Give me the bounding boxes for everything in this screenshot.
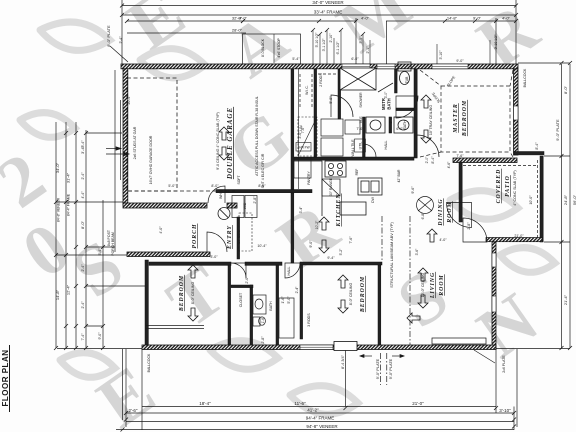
- svg-text:5'-4": 5'-4": [98, 248, 102, 256]
- bath2 vanity: [253, 295, 266, 314]
- svg-text:2'-4": 2'-4": [119, 36, 123, 44]
- svg-text:HALL: HALL: [384, 141, 388, 150]
- svg-text:6'-0": 6'-0": [351, 57, 359, 61]
- svg-text:3'-5": 3'-5": [359, 36, 363, 44]
- kitchen cooktop: [325, 161, 346, 177]
- bath2 tub: [279, 298, 294, 338]
- bedroom2 left wall: [145, 260, 148, 345]
- svg-text:10'-0": 10'-0": [529, 195, 533, 205]
- svg-text:9'-0": 9'-0": [473, 16, 482, 21]
- svg-text:2'-10": 2'-10": [329, 33, 333, 43]
- garage storage dashed rect: [127, 78, 177, 191]
- kitchen sink cabinet: [358, 178, 382, 195]
- svg-text:8'-0 BLOCK: 8'-0 BLOCK: [261, 38, 265, 57]
- toilet room wall: [395, 69, 398, 93]
- svg-text:6'-1 1/2": 6'-1 1/2": [336, 41, 340, 55]
- right extension at top wall: [518, 62, 570, 64]
- plate lines bottom: [381, 353, 387, 385]
- svg-text:KITCHEN: KITCHEN: [336, 193, 342, 227]
- svg-text:8'-0": 8'-0": [258, 184, 266, 188]
- svg-text:31'-4": 31'-4": [66, 172, 71, 183]
- bedroom doors: [231, 263, 246, 278]
- bath partition 2: [276, 265, 279, 345]
- svg-text:28'-0": 28'-0": [232, 28, 243, 33]
- bottom dim row 2: [126, 412, 514, 414]
- svg-text:34'-0": 34'-0": [55, 162, 60, 173]
- svg-text:4'-4": 4'-4": [81, 191, 85, 199]
- svg-text:BATH: BATH: [387, 98, 392, 109]
- utility north wall: [216, 190, 312, 193]
- top dim line veneer: [122, 5, 516, 7]
- svg-text:5'-0": 5'-0": [168, 184, 176, 188]
- utility closet box: [232, 196, 257, 218]
- svg-text:14'-8": 14'-8": [447, 16, 458, 21]
- svg-text:3'-1 1/2": 3'-1 1/2": [322, 38, 326, 52]
- svg-text:8'-4": 8'-4": [535, 142, 539, 150]
- left tick y303: [86, 325, 103, 327]
- svg-text:8'-0" PLATE: 8'-0" PLATE: [106, 25, 111, 47]
- svg-text:5'-2": 5'-2": [339, 248, 343, 256]
- svg-text:BEDROOM: BEDROOM: [179, 275, 185, 312]
- svg-text:7'-4": 7'-4": [81, 333, 85, 341]
- room label BEDROOM 2: [179, 275, 185, 312]
- master closet rods: [300, 74, 336, 108]
- master bedroom door arc: [417, 135, 439, 157]
- closet bath door arc: [331, 95, 353, 117]
- svg-text:ROOM: ROOM: [439, 274, 445, 296]
- left extension porch: [56, 254, 144, 256]
- hall door arc: [363, 144, 376, 157]
- svg-text:7'-6": 7'-6": [349, 236, 353, 244]
- svg-text:5'-0": 5'-0": [287, 296, 291, 304]
- patio left wall: [459, 162, 462, 222]
- bottom dim row 4: [116, 429, 514, 431]
- left tick y242: [86, 246, 115, 248]
- kitchen north wall: [294, 157, 414, 160]
- svg-text:BATH: BATH: [403, 120, 407, 130]
- svg-text:12'-4": 12'-4": [66, 284, 71, 295]
- svg-text:4'-0": 4'-0": [439, 238, 447, 242]
- svg-text:2'-0": 2'-0": [425, 156, 429, 164]
- right dim texts: [563, 85, 568, 94]
- left extension to garage wall: [56, 201, 123, 203]
- room label COVERED PATIO: [496, 169, 511, 204]
- svg-text:PATIO: PATIO: [505, 175, 511, 197]
- bedroom3 right wall: [378, 265, 381, 345]
- master toilet: [398, 62, 411, 85]
- svg-text:MASTER: MASTER: [453, 103, 459, 134]
- svg-text:2'-8": 2'-8": [253, 196, 257, 204]
- svg-text:CLOSET: CLOSET: [239, 292, 243, 307]
- svg-text:30" RANGE: 30" RANGE: [329, 177, 333, 196]
- svg-text:3'-4": 3'-4": [299, 206, 303, 214]
- svg-text:10'-2": 10'-2": [315, 220, 319, 229]
- leader 8-0 plate: [110, 46, 128, 62]
- svg-text:8'-0": 8'-0": [211, 184, 219, 188]
- svg-text:9'-0 CEILING 4" CONC SLAB (TYP: 9'-0 CEILING 4" CONC SLAB (TYP): [216, 112, 220, 170]
- slope notes: [446, 75, 456, 88]
- svg-text:2'-6": 2'-6": [129, 408, 138, 413]
- bath window 2: [377, 64, 395, 69]
- misc clutter texts: [237, 76, 451, 324]
- svg-text:SOFT: SOFT: [237, 175, 241, 184]
- garage door panel: [120, 100, 122, 180]
- left tick row: [86, 132, 122, 134]
- svg-text:4'-0": 4'-0": [502, 16, 511, 21]
- bottom dim row 1: [142, 406, 496, 408]
- svg-text:BALLCOCK: BALLCOCK: [523, 68, 527, 87]
- front door arc: [207, 232, 227, 252]
- bottom exterior wall: [142, 345, 496, 350]
- svg-text:W/D: W/D: [243, 202, 247, 209]
- plate arrows: [360, 355, 404, 358]
- svg-text:9'-0" PLATE: 9'-0" PLATE: [376, 358, 380, 379]
- top dim line frame: [122, 14, 516, 16]
- svg-text:BATH: BATH: [269, 301, 273, 311]
- master door arc: [396, 96, 418, 118]
- svg-text:2'-4": 2'-4": [81, 301, 85, 309]
- bath toilet wall: [396, 108, 414, 111]
- svg-text:2'-4": 2'-4": [295, 286, 299, 294]
- svg-text:34'-0" VENEER: 34'-0" VENEER: [312, 0, 344, 5]
- svg-text:BALLCOCK: BALLCOCK: [147, 353, 151, 372]
- right extension patio bottom: [544, 241, 570, 243]
- bath partition horizontal: [231, 285, 253, 288]
- svg-text:3 RODS: 3 RODS: [307, 313, 311, 327]
- bottom right ext x517: [516, 349, 518, 427]
- living window 1: [492, 253, 496, 267]
- bottom dim row 3: [126, 421, 514, 423]
- svg-text:9'-0" PLATE: 9'-0" PLATE: [555, 119, 560, 141]
- porch front wall: [127, 252, 210, 257]
- dining patio door arc: [447, 203, 472, 228]
- living window 2: [492, 296, 496, 312]
- wall jog mb to patio: [514, 152, 544, 155]
- svg-text:8'-0" CEILING: 8'-0" CEILING: [191, 282, 195, 305]
- master vanity 1: [366, 117, 385, 133]
- beam note: [390, 222, 394, 288]
- veneer face line left: [114, 70, 116, 252]
- master right wall: [514, 69, 519, 155]
- dim extension verticals above wall: [313, 30, 490, 64]
- extension vertical x356: [355, 18, 357, 64]
- svg-text:3'-4": 3'-4": [81, 140, 85, 148]
- util washer dryer: [321, 119, 360, 156]
- svg-text:11'-6": 11'-6": [294, 401, 306, 406]
- kitchen arrows: [319, 217, 329, 253]
- master bedroom west wall: [414, 69, 417, 158]
- top exterior wall: [121, 64, 518, 69]
- svg-text:4'-0": 4'-0": [159, 226, 163, 234]
- svg-text:33'-4" FRAME: 33'-4" FRAME: [314, 10, 342, 15]
- svg-text:1'-6": 1'-6": [261, 316, 265, 324]
- entry east wall: [237, 217, 240, 259]
- svg-text:2'-1": 2'-1": [366, 46, 370, 54]
- svg-text:W.I.C.: W.I.C.: [305, 85, 309, 95]
- svg-text:10'-4": 10'-4": [257, 244, 267, 248]
- svg-text:ENTRY: ENTRY: [227, 225, 233, 250]
- living bottom window: [432, 338, 486, 344]
- fireplace box: [334, 342, 357, 351]
- master window right: [514, 106, 519, 120]
- garage dashed ceiling line: [128, 190, 235, 192]
- garage ceiling arrows: [219, 127, 229, 160]
- bottom ext x122: [122, 349, 124, 420]
- svg-text:DW: DW: [371, 196, 375, 202]
- bottom ext x514: [513, 407, 515, 431]
- garage wall dim arrows: [106, 147, 129, 156]
- svg-text:BEDROOM: BEDROOM: [360, 276, 366, 313]
- dining table: [417, 197, 434, 214]
- living room ceiling arrows horizontal: [407, 313, 420, 323]
- garage right wall: [291, 69, 294, 193]
- svg-text:FLOOR PLAN: FLOOR PLAN: [1, 350, 10, 407]
- left dim line b: [65, 122, 67, 348]
- plate note texts bottom: [376, 358, 380, 379]
- svg-text:STRUCTURAL LAM BEAM ABV (TYP): STRUCTURAL LAM BEAM ABV (TYP): [390, 222, 394, 288]
- svg-text:1'-6": 1'-6": [281, 296, 285, 304]
- svg-text:BEDROOM: BEDROOM: [462, 100, 468, 137]
- svg-text:WH: WH: [219, 193, 223, 199]
- dim cluster above wall: [119, 32, 498, 105]
- svg-text:3'-0": 3'-0": [210, 255, 218, 259]
- kitchen west wall: [291, 193, 294, 263]
- svg-text:94'-4" FRAME: 94'-4" FRAME: [306, 416, 334, 421]
- svg-text:2'-8": 2'-8": [467, 222, 471, 230]
- svg-text:UTIL: UTIL: [359, 142, 363, 150]
- svg-text:3'-6": 3'-6": [415, 248, 419, 256]
- svg-text:9'-4": 9'-4": [327, 256, 335, 260]
- svg-text:21'-0": 21'-0": [412, 401, 424, 406]
- svg-text:18'-4": 18'-4": [199, 401, 211, 406]
- svg-text:8'-0": 8'-0": [80, 220, 85, 229]
- svg-text:PANTRY: PANTRY: [307, 171, 311, 185]
- svg-text:9'-0": 9'-0": [309, 240, 313, 248]
- svg-text:5'-10 1/2": 5'-10 1/2": [315, 32, 319, 48]
- svg-text:7'-6": 7'-6": [456, 154, 464, 158]
- svg-text:94'-8" VENEER: 94'-8" VENEER: [306, 424, 338, 429]
- garage interior dim line: [298, 69, 300, 189]
- left dim line e: [102, 200, 104, 348]
- svg-text:2x6 PLATE: 2x6 PLATE: [502, 355, 506, 373]
- left dim line c: [75, 122, 77, 348]
- svg-text:8'-0" CEILING: 8'-0" CEILING: [349, 283, 353, 306]
- svg-text:21'-4": 21'-4": [563, 294, 568, 305]
- svg-text:REF: REF: [355, 169, 359, 176]
- svg-text:MSTR: MSTR: [381, 98, 386, 110]
- bottom ext x142: [141, 349, 143, 430]
- patio right wall: [540, 156, 543, 242]
- svg-text:8'-4": 8'-4": [431, 156, 435, 164]
- master tray ceiling dashed: [420, 70, 513, 157]
- kitchen island: [340, 202, 366, 215]
- room label DINING ROOM: [438, 198, 453, 226]
- svg-text:DOUBLE GARAGE: DOUBLE GARAGE: [226, 107, 234, 180]
- svg-text:2'-4": 2'-4": [81, 264, 85, 272]
- room label PORCH: [192, 224, 198, 249]
- svg-text:20'-4": 20'-4": [127, 95, 131, 105]
- structural beam dashed: [382, 216, 410, 345]
- room label MSTR BATH: [381, 98, 392, 110]
- room label CLOSET: [239, 292, 243, 307]
- svg-text:2x6 STUDS AT GAR: 2x6 STUDS AT GAR: [133, 126, 137, 159]
- svg-text:24'-8": 24'-8": [563, 194, 568, 205]
- svg-text:5'-4": 5'-4": [292, 57, 300, 61]
- room label KITCHEN: [336, 193, 342, 227]
- right dim line a: [561, 64, 563, 348]
- svg-text:12'-0" CEILING: 12'-0" CEILING: [421, 273, 425, 298]
- svg-text:2 RODS: 2 RODS: [319, 73, 323, 87]
- svg-text:1HR FW: 1HR FW: [297, 146, 309, 150]
- svg-text:9'-0": 9'-0": [456, 59, 464, 63]
- title FLOOR PLAN: [1, 350, 10, 407]
- master arrows: [421, 95, 431, 143]
- svg-text:16'x7' OVHD GARAGE DOOR: 16'x7' OVHD GARAGE DOOR: [149, 135, 153, 184]
- master shower: [340, 68, 376, 90]
- svg-text:8'-0": 8'-0": [563, 85, 568, 94]
- top dim line segments: [127, 20, 356, 22]
- small interior dim texts scattered: [159, 57, 539, 344]
- toilet door leaf: [378, 83, 393, 92]
- hall closet wall: [300, 265, 303, 339]
- bottom extension right: [496, 348, 570, 350]
- bottom ext x496: [495, 349, 497, 413]
- garage attic note: [255, 96, 259, 176]
- left dim line d: [85, 130, 87, 348]
- svg-text:56'-0": 56'-0": [572, 194, 576, 205]
- living room right wall: [492, 242, 496, 349]
- garage bottom wall: [123, 203, 207, 208]
- water heater: [218, 208, 230, 220]
- svg-text:41'-2": 41'-2": [307, 408, 319, 413]
- bottom right leader: [474, 350, 495, 363]
- room label LIVING ROOM: [430, 272, 445, 299]
- room label BEDROOM 3: [360, 276, 366, 313]
- room label DOUBLE GARAGE: [226, 107, 234, 180]
- bottom ext x126: [125, 349, 127, 427]
- svg-text:TUB: TUB: [405, 76, 409, 84]
- svg-text:6'-0": 6'-0": [396, 127, 404, 131]
- svg-text:84'-4" FRAME: 84'-4" FRAME: [67, 193, 71, 216]
- svg-text:PORCH BEAM: PORCH BEAM: [111, 232, 115, 256]
- svg-text:ATTIC ACCESS PULL DOWN STAIR R: ATTIC ACCESS PULL DOWN STAIR R-38 INSUL: [255, 96, 259, 176]
- kitchen counter line: [294, 161, 322, 216]
- svg-text:2'-0": 2'-0": [245, 276, 249, 284]
- bedroom2 arrows: [188, 265, 198, 321]
- bath partition 1: [250, 285, 253, 345]
- entry north door arc: [208, 186, 225, 203]
- room label WIC: [305, 85, 309, 95]
- svg-text:84'-8" VENEER: 84'-8" VENEER: [57, 197, 61, 222]
- left dim labels: [57, 140, 116, 341]
- svg-text:PORCH: PORCH: [192, 224, 198, 249]
- bedroom2 window: [146, 326, 204, 329]
- svg-text:10' CEIL: 10' CEIL: [237, 230, 241, 244]
- hall south wall bedrooms top: [149, 262, 382, 265]
- svg-text:7'-6": 7'-6": [301, 126, 305, 134]
- patio bottom screen: [486, 238, 542, 242]
- svg-text:SHOWER: SHOWER: [359, 92, 363, 108]
- left dim line a: [55, 122, 57, 348]
- svg-text:3'-10 1/2": 3'-10 1/2": [494, 34, 498, 50]
- bath window 1: [342, 64, 370, 69]
- svg-text:4'-6": 4'-6": [447, 161, 451, 169]
- garage bottom wall right piece: [227, 203, 237, 208]
- svg-text:COVERED: COVERED: [496, 169, 502, 204]
- svg-text:DINING: DINING: [438, 198, 444, 226]
- bath2 toilet: [253, 317, 265, 326]
- dim line y33 left: [127, 32, 246, 34]
- left dim texts: [55, 162, 60, 173]
- right dim line b: [569, 64, 571, 348]
- room label ENTRY: [227, 225, 233, 250]
- room label MASTER BEDROOM: [453, 100, 468, 137]
- util wall: [363, 117, 366, 157]
- room label HALL2: [287, 267, 291, 276]
- svg-text:2'-8": 2'-8": [261, 336, 265, 344]
- bedroom2 right wall: [228, 265, 231, 345]
- master vanity 2: [394, 117, 413, 133]
- bath hall wall: [314, 69, 317, 157]
- svg-text:9'-0" PLATE: 9'-0" PLATE: [389, 358, 393, 379]
- svg-text:6'-8": 6'-8": [421, 212, 425, 220]
- bottom ext x230 fireplace centerline: [345, 350, 347, 407]
- svg-text:14'-8": 14'-8": [55, 289, 60, 300]
- svg-text:4'x6' STOOP: 4'x6' STOOP: [277, 38, 281, 58]
- svg-text:4'-0": 4'-0": [361, 16, 370, 21]
- svg-text:LIVING: LIVING: [430, 272, 436, 299]
- patio screen dashed: [537, 160, 539, 238]
- stoop centerline: [273, 34, 275, 63]
- bottom extension line full: [57, 348, 142, 350]
- patio door arc: [463, 218, 487, 242]
- pantry shelves: [298, 117, 317, 156]
- extension vertical x496: [495, 18, 497, 64]
- right extension at mb bottom: [544, 155, 570, 157]
- garage ceiling note: [216, 112, 220, 170]
- svg-text:9'-0": 9'-0": [98, 332, 102, 340]
- kitchen fridge: [322, 179, 340, 196]
- patio top wall: [453, 158, 517, 163]
- svg-text:8'-4 3/4": 8'-4 3/4": [341, 354, 345, 369]
- master top wall window: [432, 64, 468, 69]
- room label UTIL: [355, 139, 366, 152]
- svg-text:2'-8": 2'-8": [389, 116, 393, 124]
- left tick y262: [86, 285, 145, 287]
- svg-text:4" CONC SLAB (TYP): 4" CONC SLAB (TYP): [513, 170, 517, 205]
- stoop outline above wall: [243, 34, 301, 64]
- entry closet dashed: [239, 213, 252, 251]
- svg-text:21'-0": 21'-0": [514, 234, 524, 238]
- svg-text:7'-0": 7'-0": [356, 127, 364, 131]
- dining arrows: [427, 229, 437, 242]
- svg-text:3'-0": 3'-0": [384, 91, 388, 99]
- svg-text:3'-10": 3'-10": [499, 408, 511, 413]
- bedroom3 window bottom: [300, 345, 333, 350]
- svg-text:2'-4": 2'-4": [81, 172, 85, 180]
- svg-text:4'-0": 4'-0": [239, 16, 248, 21]
- svg-text:WALL TILE: WALL TILE: [351, 139, 355, 157]
- svg-text:HALL: HALL: [287, 267, 291, 276]
- extension line top right: [515, 0, 517, 64]
- extension line top left: [121, 0, 123, 64]
- svg-text:5'-8": 5'-8": [329, 96, 333, 104]
- svg-text:3'-10": 3'-10": [439, 50, 443, 60]
- svg-text:ROOM: ROOM: [447, 201, 453, 223]
- svg-text:9'-6": 9'-6": [411, 186, 415, 194]
- svg-text:42" BAR: 42" BAR: [397, 169, 401, 182]
- svg-text:TILE: TILE: [359, 116, 363, 124]
